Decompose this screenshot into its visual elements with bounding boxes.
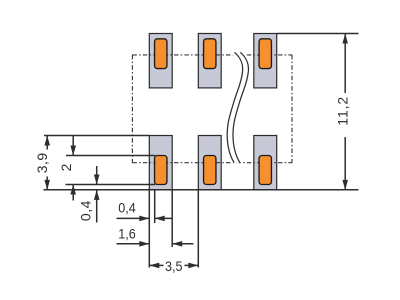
break line curve 2 [233,52,248,162]
break line curve 1 [227,52,242,162]
svg-text:11,2: 11,2 [335,96,351,126]
solder pad O3 top (orange) [259,39,271,69]
pad P2 top (gray land) [198,34,221,88]
extension line pad2 left below [197,190,199,268]
svg-text:1,6: 1,6 [118,226,136,242]
extension line pad top left [44,135,149,137]
break line halo 2 [233,52,248,162]
pad P4 bottom (gray land) [149,136,172,190]
dimension 0,4 vertical line lower [96,190,98,223]
pad P3 top (gray land) [254,34,277,88]
dimension 0,4 horizontal tail right [155,217,173,219]
dimension 3,9 arrow down [44,180,50,190]
dimension 3,9 arrow up [44,136,50,146]
dimension 2 line upper [72,136,74,156]
dimension 1,6 arrow right [139,241,149,247]
dimension 3,5 line right [185,264,199,266]
dimension 3,5 line left [149,264,163,266]
dimension 11,2 line upper [344,34,346,94]
svg-text:3,9: 3,9 [34,152,50,173]
pad P6 bottom (gray land) [254,136,277,190]
dimension 3,9 line upper [46,136,48,150]
solder pad O5 bottom (orange) [204,156,216,185]
body outline right edge (dash-dot) [291,55,293,163]
extension line orange1 left below [154,190,156,223]
dimension 3,5 arrow right [188,263,198,269]
dimension 1,6 tail left [117,243,150,245]
solder pad O1 top (orange) [155,39,167,69]
dimension 2 arrow down [70,146,76,156]
dimension 0,4 horizontal arrow left [155,216,165,222]
dimension 2 arrow up [70,185,76,195]
dimension 0,4 horizontal arrow right [139,216,149,222]
extension line orange bottom left [66,184,156,186]
extension line pad bottom full [44,189,359,191]
dimension 0,4 horizontal tail left [117,217,150,219]
svg-text:0,4: 0,4 [118,200,136,216]
dimension 11,2 line lower [344,137,346,190]
dimension 3,9 line lower [46,177,48,190]
svg-text:0,4: 0,4 [78,200,94,221]
dimension 0,4 vertical arrow up [94,190,100,200]
pad P5 bottom (gray land) [198,136,221,190]
solder pad O4 bottom (orange) [155,156,167,185]
dimension 11,2 arrow up [342,34,348,44]
dimension 3,5 arrow left [149,263,159,269]
svg-text:2: 2 [58,163,74,171]
extension line pad1 left below [148,190,150,268]
solder pad O2 top (orange) [204,39,216,69]
svg-text:3,5: 3,5 [165,258,183,274]
extension line pad1 right below [171,190,173,247]
break line halo [227,52,242,162]
extension line orange top left [66,155,155,157]
extension line pad top right [277,33,358,35]
centerline top row (dash-dot) [132,54,292,56]
dimension 11,2 arrow down [342,180,348,190]
dimension 1,6 arrow left [172,241,182,247]
dimension 0,4 vertical arrow down [94,175,100,185]
dimension 0,4 vertical line upper [96,166,98,185]
dimension 1,6 tail right [172,243,193,245]
dimension 2 line lower [72,185,74,201]
solder pad O6 bottom (orange) [259,156,271,185]
pad P1 top (gray land) [149,34,172,88]
body outline left edge (dash-dot) [131,55,133,163]
centerline bottom row (dash-dot) [132,162,292,164]
